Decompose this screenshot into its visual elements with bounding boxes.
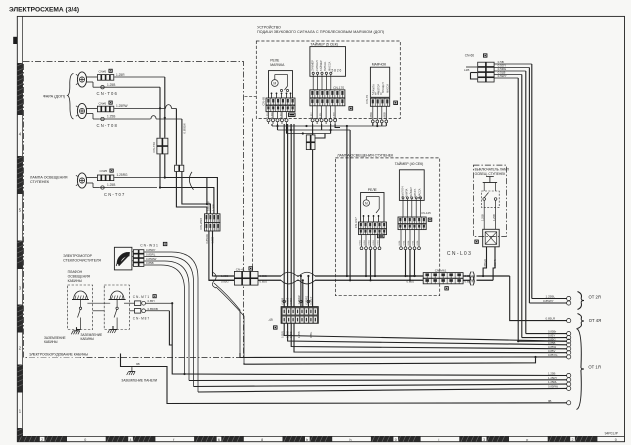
svg-text:p: p [526, 438, 528, 442]
svg-text:0.5WY: 0.5WY [498, 74, 507, 78]
step lamp wires to CN-W18 [160, 178, 217, 214]
connector CN-W31 [132, 242, 167, 267]
step relay connector CN-R17 [354, 217, 387, 235]
long wire rows from top bundle [517, 334, 567, 343]
svg-text:0.85B: 0.85B [260, 274, 267, 278]
svg-text:ЛАМПА ОСВЕЩЕНИЯ: ЛАМПА ОСВЕЩЕНИЯ [30, 175, 68, 179]
beacon connector label chip [393, 101, 398, 105]
svg-text:CN-76: CN-76 [365, 95, 369, 104]
wire 0.85WB from CN-M87 [146, 307, 170, 311]
svg-text:1.25RG: 1.25RG [117, 173, 129, 177]
inline splice on CN-T06 ground wire [99, 83, 160, 89]
cab lamp 1 dashed box [68, 285, 93, 330]
svg-text:CN#5: CN#5 [99, 70, 107, 74]
step timer harness rings [400, 247, 421, 250]
beacon-signal device dashed boundary box [256, 41, 400, 119]
svg-text:0.85B: 0.85B [146, 261, 154, 265]
cabin boundary label [28, 350, 88, 358]
svg-text:ТАЙМЕР (5 СЕК): ТАЙМЕР (5 СЕК) [310, 42, 338, 46]
svg-text:8: 8 [261, 438, 263, 442]
svg-text:2: 2 [41, 438, 43, 442]
connector CN-41 on bus [221, 266, 267, 285]
terminal wires OT2 group [529, 295, 570, 306]
svg-text:C N - M 8 7: C N - M 8 7 [133, 316, 150, 320]
cab lamp feed verticals to lower bends [169, 303, 567, 375]
wires timer to CN-170 [313, 74, 331, 90]
svg-text:9B: 9B [136, 362, 140, 366]
step relay K2 box [361, 193, 384, 223]
svg-text:СИГНАЛ: СИГНАЛ [315, 60, 319, 71]
wiper motor M1 box with icon [114, 247, 131, 270]
svg-text:94P01JP: 94P01JP [605, 431, 619, 435]
connector CN-49 [268, 307, 318, 324]
svg-text:0.85L: 0.85L [320, 112, 322, 118]
step timer harness wire labels [399, 230, 419, 247]
relay harness stubs with ring terminals [267, 111, 288, 124]
svg-text:4: 4 [130, 438, 132, 442]
cabin equipment dash-dot boundary box [24, 62, 244, 358]
left ruler strip [17, 16, 22, 441]
svg-text:РЕЛЕ: РЕЛЕ [270, 58, 280, 62]
svg-text:f: f [173, 438, 174, 442]
svg-text:0.85GR: 0.85GR [465, 274, 475, 278]
switch dash-dot boundary box [473, 165, 506, 236]
wire 1.25RG from CN-T07 [114, 173, 207, 177]
svg-text:1.25R: 1.25R [116, 73, 125, 77]
diagonal wire from bus area to lower verticals [214, 283, 240, 353]
svg-text:L2B: L2B [464, 68, 469, 72]
svg-text:0.85YR: 0.85YR [493, 259, 497, 268]
svg-text:0.85RW: 0.85RW [548, 385, 558, 389]
wire hop arc big [189, 172, 193, 190]
svg-text:0.85Y: 0.85Y [311, 112, 313, 118]
connector CN-170 [310, 86, 345, 106]
wires below CN-W18 to bus [205, 231, 234, 280]
svg-text:0.85GR: 0.85GR [407, 274, 417, 278]
svg-text:1.25B: 1.25B [107, 115, 115, 119]
svg-text:6: 6 [218, 438, 220, 442]
splice rings above CN-49 [283, 300, 310, 303]
cab lamp link wire [87, 303, 110, 311]
svg-text:ПОДАЧИ ЗВУКОВОГО СИГНАЛА С ПРО: ПОДАЧИ ЗВУКОВОГО СИГНАЛА С ПРОБЛЕСКОВЫМ … [257, 30, 384, 34]
wire 1.25R from CN-T06 [114, 73, 165, 77]
svg-text:0.85G: 0.85G [221, 280, 229, 284]
long vertical wires to CN-49 column group [284, 124, 325, 307]
web vertical stubs from CN-170 [322, 124, 340, 134]
svg-text:M: M [273, 82, 276, 86]
svg-text:0.85G: 0.85G [364, 239, 366, 245]
svg-text:0.85YR: 0.85YR [465, 280, 474, 284]
svg-text:1.25B: 1.25B [480, 214, 484, 221]
svg-text:КАБИНЫ: КАБИНЫ [81, 337, 95, 341]
svg-text:CN-41: CN-41 [236, 267, 245, 271]
svg-text:ПЛАФОН: ПЛАФОН [68, 270, 83, 274]
bus junction dots right [482, 275, 484, 277]
cab lamp 2 dome symbol [109, 291, 126, 300]
svg-text:C N - L 0 3: C N - L 0 3 [447, 251, 471, 257]
timer T1 box 5sec [310, 47, 346, 77]
long wire row A2 from CN-49 [288, 323, 567, 345]
svg-text:0.85RL: 0.85RL [146, 253, 156, 257]
step relay wires to bus [365, 250, 376, 282]
svg-text:CN-66: CN-66 [465, 54, 474, 58]
svg-text:ЗАЗЕМЛЕНИЕ ПАНЕЛИ: ЗАЗЕМЛЕНИЕ ПАНЕЛИ [121, 378, 157, 382]
svg-text:ВРАЩЕН: ВРАЩЕН [382, 82, 385, 93]
CN-66 left stub wires [464, 67, 477, 79]
web horizontal wire y126 [272, 123, 386, 127]
svg-text:0: 0 [395, 438, 397, 442]
bottom ruler strip [17, 436, 624, 441]
svg-text:ТАЙМЕР: ТАЙМЕР [410, 187, 413, 198]
svg-text:КАБИНЫ: КАБИНЫ [68, 279, 82, 283]
cab ground 1 label [44, 336, 66, 344]
cab ground 2 label [81, 333, 103, 341]
svg-text:1.25B: 1.25B [107, 183, 115, 187]
svg-text:-49: -49 [268, 318, 273, 322]
long wire row B4 [198, 388, 567, 392]
inline connector on pair x176-182 [174, 165, 184, 172]
svg-text:0.85G: 0.85G [377, 239, 379, 245]
CN-125 chip [428, 218, 432, 222]
relay K1 beacon relay box [269, 71, 293, 98]
inline connector CN-T60 on pair [152, 138, 169, 155]
svg-text:0.85LR: 0.85LR [546, 317, 557, 321]
wire 0.85W from CN-M71 [146, 299, 174, 304]
headlamp 1 [76, 72, 87, 87]
svg-text:ЭЛЕКТРОМОТОР: ЭЛЕКТРОМОТОР [63, 254, 93, 258]
svg-text:2: 2 [572, 438, 574, 442]
left edge tick mark [13, 37, 17, 44]
svg-text:0.85G: 0.85G [260, 280, 268, 284]
svg-text:ПИТАН.: ПИТАН. [323, 61, 327, 71]
cab lamp 1 switch and lead [77, 300, 82, 330]
inline connector on CN-170 pair [306, 135, 316, 151]
long wire row A5 from diagonal [240, 353, 567, 358]
relay connector label chip [288, 113, 296, 117]
svg-text:5 8 2 6: 5 8 2 6 [332, 69, 342, 73]
svg-text:0.85L: 0.85L [408, 239, 410, 245]
terminal circle ground wire [567, 401, 571, 405]
svg-text:КАБИНЫ: КАБИНЫ [44, 340, 58, 344]
svg-text:0: 0 [84, 438, 86, 442]
svg-text:0.85GW: 0.85GW [205, 233, 209, 243]
svg-text:0.85Y: 0.85Y [148, 299, 156, 303]
terminal brace OT 4YA [578, 314, 602, 329]
step lamp label [30, 175, 68, 184]
svg-text:0.85G: 0.85G [286, 298, 289, 305]
s-curve wire crossing near bus [212, 272, 216, 288]
svg-text:0.85YG: 0.85YG [548, 353, 558, 357]
wire pair down right of step lamp wires [176, 109, 186, 165]
svg-text:CN-170: CN-170 [333, 86, 344, 90]
step lamp dashed boundary box [335, 158, 439, 296]
svg-text:0.85WB: 0.85WB [148, 307, 158, 311]
svg-text:C N - T 0 8: C N - T 0 8 [97, 123, 118, 128]
svg-text:0.85RY: 0.85RY [146, 248, 156, 252]
bus tap wires down to CN-49 [300, 275, 310, 307]
svg-text:ОСВЕЩ. СТУПЕНЕК: ОСВЕЩ. СТУПЕНЕК [475, 172, 506, 176]
CN-49 chip [273, 325, 277, 329]
step timer T2 box [399, 170, 424, 201]
cab lamp 2 switch and lead [113, 300, 118, 330]
svg-text:УСТРОЙСТВО: УСТРОЙСТВО [257, 25, 281, 29]
svg-text:CN#5: CN#5 [100, 169, 108, 173]
beacon stub wires join web [376, 123, 382, 127]
svg-text:0.85G: 0.85G [359, 239, 361, 245]
connector CN-M87 inline [129, 309, 149, 321]
svg-text:ОТ 2Я: ОТ 2Я [589, 295, 601, 300]
connector CN-T07 [87, 169, 125, 198]
wire down from 1.25R corner [164, 77, 166, 138]
svg-text:0.85R: 0.85R [334, 112, 336, 118]
long wire row B2 [189, 379, 567, 382]
svg-text:2 5 9 0: 2 5 9 0 [372, 92, 382, 96]
wiper wire 4 with label [144, 261, 184, 374]
svg-text:0.85W: 0.85W [267, 111, 269, 118]
svg-text:МАССА: МАССА [387, 84, 390, 93]
svg-text:0.85G: 0.85G [281, 112, 283, 118]
svg-text:ЛАМПА ОСВЕЩЕНИЯ СТУПЕНЕК: ЛАМПА ОСВЕЩЕНИЯ СТУПЕНЕК [337, 154, 394, 158]
inline connector symbol on bus after CN-M61 [470, 272, 475, 286]
terminal wire OT4 group [510, 276, 571, 323]
device boundary extension dashed line [252, 119, 254, 281]
svg-text:0.85B: 0.85B [272, 112, 274, 118]
svg-text:CN-T60: CN-T60 [152, 142, 156, 153]
wires below CN-T60 to lower corners [159, 154, 166, 188]
svg-text:CN-125: CN-125 [421, 211, 432, 215]
step lamp symbol [76, 173, 87, 188]
CN-170 label chip [349, 106, 354, 110]
web horizontal wire y130 [278, 129, 351, 131]
svg-text:ЗУММЕР: ЗУММЕР [311, 60, 315, 71]
web horizontal wire y133.5 [287, 132, 331, 134]
svg-text:ЭЛЕКТРООБОРУДОВАНИЕ КАБИНЫ: ЭЛЕКТРООБОРУДОВАНИЕ КАБИНЫ [29, 353, 88, 357]
svg-text:b: b [306, 438, 308, 442]
headlamp label FARA DOP with brace [43, 74, 74, 120]
switch wire labels vertical [483, 259, 497, 268]
svg-text:1.25BL: 1.25BL [546, 295, 556, 299]
svg-text:CN-65: CN-65 [262, 96, 266, 105]
web vertical stubs from relay stubs [272, 124, 291, 134]
wiper wire 3 with label [144, 257, 189, 381]
svg-text:0.85R: 0.85R [369, 112, 373, 119]
wiper wire 2 with label [144, 253, 193, 387]
connector CN-125 [398, 211, 431, 230]
long wire row B3 [194, 384, 568, 386]
switch S1 lever symbol [483, 177, 497, 192]
svg-text:1.25B: 1.25B [107, 83, 115, 87]
svg-text:h: h [350, 438, 352, 442]
wire labels below CN-49 [281, 331, 312, 338]
terminal circles OT1 upper [548, 330, 571, 359]
long wire row A4 from CN-49 [294, 323, 567, 352]
long wire row A1 from CN-49 [284, 323, 567, 341]
svg-text:1.25B: 1.25B [298, 331, 301, 338]
svg-text:ОСВЕЩЕНИЯ: ОСВЕЩЕНИЯ [68, 275, 91, 279]
svg-text:РЕЛЕ: РЕЛЕ [368, 188, 378, 192]
wires step timer to CN-125 [403, 199, 421, 217]
svg-text:3: 3 [483, 438, 485, 442]
cab lamp 2 dashed box [104, 285, 129, 330]
web wire pair down to bus through step-lamp box [346, 126, 351, 281]
svg-text:0.85GW: 0.85GW [207, 201, 211, 211]
relay connector CN-65 [262, 96, 295, 111]
svg-text:0.85B: 0.85B [290, 298, 293, 305]
step relay connector chip [377, 234, 385, 238]
switch connector chip [474, 240, 478, 244]
svg-text:ТАЙМЕР (40 СЕК): ТАЙМЕР (40 СЕК) [395, 162, 424, 166]
cab ground 1 [71, 327, 79, 334]
long wire row A3 from CN-49 [291, 323, 567, 349]
svg-text:ОТ 4Я: ОТ 4Я [589, 318, 601, 323]
long wire row A6 merging up [244, 356, 537, 364]
step timer wires to bus [404, 250, 415, 282]
svg-text:0.85LY: 0.85LY [310, 296, 313, 304]
svg-text:ОТ 1Я: ОТ 1Я [588, 365, 600, 370]
svg-text:1.25B: 1.25B [221, 274, 228, 278]
svg-text:ВЫКЛЮЧ: ВЫКЛЮЧ [402, 186, 405, 197]
beacon harness stubs [369, 106, 388, 123]
wire down from 1.25B corner [159, 87, 161, 138]
svg-text:0.85G: 0.85G [407, 280, 415, 284]
panel ground wire [121, 354, 568, 404]
svg-text:M: M [365, 202, 368, 206]
panel ground symbol [127, 367, 135, 376]
connector CN-M61 on bus [407, 268, 475, 284]
CN-M61 chip [444, 286, 448, 290]
svg-text:0.85GW: 0.85GW [183, 123, 187, 134]
svg-text:1.25B: 1.25B [210, 236, 214, 243]
wire 1.25RW from CN-T08 [114, 104, 176, 108]
svg-text:C N - T 0 6: C N - T 0 6 [97, 91, 118, 96]
beacon lamp box [370, 67, 389, 97]
bus wire lower y280.3 [209, 279, 493, 281]
wiper wire 1 with label [144, 248, 198, 392]
svg-text:0.85GR: 0.85GR [483, 259, 487, 268]
svg-text:ЛАМПА: ЛАМПА [406, 188, 409, 197]
svg-text:0.85L: 0.85L [417, 239, 419, 245]
CN-170 harness stubs with rings [311, 106, 337, 124]
svg-text:0.85L: 0.85L [399, 239, 401, 245]
cab ground 2 [108, 326, 116, 333]
svg-text:ТАЙМЕР: ТАЙМЕР [319, 60, 323, 71]
right bundle vertical wires [518, 64, 532, 341]
step relay harness rings [360, 247, 381, 250]
svg-text:CN-M61: CN-M61 [435, 268, 447, 272]
connector CN-T08 [87, 101, 118, 128]
column labels above CN-49 [281, 295, 312, 305]
wires from inline connector down to CN-W18 top [176, 172, 210, 214]
svg-text:0.85G: 0.85G [373, 239, 375, 245]
relay РЕЛЕ МАЯЧКА label [270, 58, 285, 67]
svg-text:0.85L: 0.85L [412, 239, 414, 245]
svg-text:0.85G: 0.85G [368, 239, 370, 245]
terminal brace OT 2YA [578, 292, 601, 310]
bus wire upper y276 [214, 275, 510, 277]
switch connector CN-L03 block [483, 229, 500, 247]
switch lead labels [480, 208, 495, 230]
wire 1.25B from CN-T07 with splice [99, 183, 157, 189]
svg-text:МАЯЧОК: МАЯЧОК [372, 63, 386, 67]
terminal brace OT 1YA [577, 329, 601, 410]
device title label [257, 25, 384, 34]
switch box label [475, 168, 510, 176]
boundary link dash stub cabin-to-device [245, 95, 257, 97]
svg-text:1.25RW: 1.25RW [116, 104, 127, 108]
step relay harness wire labels [359, 235, 379, 247]
svg-text:ФАРА (ДОП): ФАРА (ДОП) [43, 94, 66, 98]
CN-66 right wires with labels [495, 60, 532, 78]
svg-text:МАЯЧКА: МАЯЧКА [270, 63, 285, 67]
svg-text:0.85L: 0.85L [403, 239, 405, 245]
connector CN-T06 [87, 69, 118, 96]
svg-text:CN-R17: CN-R17 [354, 217, 358, 228]
svg-text:CN#5: CN#5 [99, 101, 107, 105]
cab lamp label [68, 270, 91, 283]
svg-text:CN-W18: CN-W18 [199, 218, 203, 230]
svg-text:9B: 9B [548, 399, 552, 403]
cab lamp 1 dome symbol [72, 291, 89, 300]
svg-text:C N - W 3 1: C N - W 3 1 [140, 243, 158, 247]
svg-text:C N - T 0 7: C N - T 0 7 [104, 192, 125, 197]
svg-text:0.85WY: 0.85WY [543, 299, 554, 303]
terminal circles OT1 lower [548, 372, 571, 391]
wiper motor label [63, 254, 101, 263]
switch wires down to bus [483, 247, 495, 280]
headlamp 2 [76, 103, 87, 118]
svg-text:0: 0 [615, 438, 617, 442]
wire 1.25B from CN-T08 with splice [99, 115, 182, 121]
switch contact dashed box [482, 191, 500, 208]
svg-text:ПИТАН.: ПИТАН. [414, 188, 417, 198]
svg-text:ЭЛЕКТРОСХЕМА (3/4): ЭЛЕКТРОСХЕМА (3/4) [9, 6, 79, 13]
svg-text:СТУПЕНЕК: СТУПЕНЕК [30, 180, 50, 184]
svg-text:СТЕКЛООЧИСТИТЕЛЯ: СТЕКЛООЧИСТИТЕЛЯ [63, 259, 101, 263]
beacon connector CN-76 [365, 95, 390, 107]
connector CN-M71 inline [124, 294, 157, 305]
junction dots on left verticals [159, 107, 166, 119]
svg-text:1.25B: 1.25B [492, 214, 496, 221]
bus hops over CN-49 columns [281, 272, 315, 284]
svg-text:0.85B: 0.85B [382, 112, 386, 119]
svg-text:0.85L: 0.85L [310, 331, 313, 338]
connector CN-66 top right [465, 53, 495, 82]
svg-text:1.25B: 1.25B [212, 204, 216, 211]
connector CN-W18 vertical [199, 201, 220, 231]
